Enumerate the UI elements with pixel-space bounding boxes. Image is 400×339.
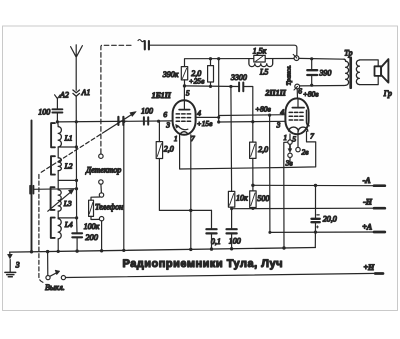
svg-text:Трансл.: Трансл.	[286, 65, 293, 86]
wire far-left chassis line	[31, 120, 33, 251]
coil L5	[249, 59, 273, 67]
svg-text:6: 6	[163, 110, 167, 119]
transformer secondary	[356, 60, 359, 84]
terminal -А	[374, 184, 385, 187]
wire L1 tap	[58, 146, 76, 148]
svg-text:+80в: +80в	[303, 89, 320, 98]
svg-text:390к: 390к	[162, 70, 179, 79]
rail ground common	[10, 248, 316, 253]
wire 10к branch vertical	[230, 87, 233, 192]
svg-text:-А: -А	[363, 176, 372, 185]
node dots antenna line	[75, 145, 78, 219]
wire HT dropper vertical	[218, 59, 220, 122]
svg-text:10к: 10к	[236, 194, 248, 203]
svg-text:3: 3	[276, 120, 281, 129]
capacitor 390 (tone)	[307, 59, 317, 85]
wire dashed mechanical link to band switch	[40, 131, 106, 173]
tube V2 anode	[292, 98, 304, 107]
svg-text:390: 390	[318, 69, 331, 78]
svg-text:+80в: +80в	[255, 105, 272, 114]
svg-text:1: 1	[174, 134, 178, 143]
svg-text:+А: +А	[362, 223, 373, 232]
tube V2 grids	[289, 112, 305, 120]
svg-text:3в: 3в	[285, 159, 294, 168]
coil L1	[58, 122, 62, 147]
resistor 100к (telephone shunt)	[89, 197, 100, 220]
capacitor 20,0 electrolytic	[312, 185, 320, 247]
svg-text:Телефон: Телефон	[95, 202, 123, 211]
wire grid line to V2 pin3	[219, 120, 286, 123]
wire speaker loop	[359, 60, 378, 85]
core L2	[51, 156, 55, 174]
wire top to transl terminal	[150, 45, 297, 55]
capacitor antenna series (top, with ~ mark)	[138, 40, 149, 50]
svg-text:Тр: Тр	[344, 48, 352, 57]
capacitor C variable (trimmer)	[106, 112, 136, 131]
wire top rail	[185, 59, 295, 67]
svg-text:3: 3	[165, 121, 170, 130]
svg-text:1,5к: 1,5к	[253, 47, 267, 56]
svg-text:100: 100	[229, 237, 241, 246]
svg-text:1Б1П: 1Б1П	[152, 91, 172, 100]
svg-text:2в: 2в	[302, 147, 310, 156]
terminal +Н	[375, 272, 383, 275]
arrow L3 variable	[48, 189, 74, 211]
wire L1-L2	[57, 147, 59, 158]
wire variable cap rotor to ground rail	[123, 122, 125, 251]
rail -Н	[232, 207, 375, 210]
resistor 390к	[181, 67, 187, 86]
terminal telephone jack lower	[99, 217, 103, 251]
svg-text:4: 4	[197, 108, 201, 117]
wire pin7 V2 loop	[284, 131, 316, 167]
terminal detector jack upper	[99, 154, 103, 158]
svg-text:0,1: 0,1	[211, 237, 221, 246]
svg-text:100: 100	[38, 107, 50, 116]
wire screen line to V2 pin4	[219, 114, 286, 117]
svg-text:L4: L4	[64, 220, 73, 229]
svg-text:1: 1	[283, 133, 287, 142]
svg-text:6: 6	[298, 87, 302, 96]
core L4	[51, 218, 55, 238]
wire +80в screen feed down	[269, 115, 271, 232]
capacitor 100 (antenna A2)	[52, 109, 62, 122]
svg-text:3300: 3300	[230, 73, 247, 82]
svg-text:100: 100	[141, 106, 153, 115]
coil L3	[58, 190, 61, 211]
wire pin1 V1 to filament line	[180, 134, 284, 169]
svg-text:20,0: 20,0	[323, 215, 337, 224]
resistor 2,0 (V2 grid leak)	[250, 122, 256, 186]
svg-text:500: 500	[257, 194, 269, 203]
capacitor 3300	[239, 83, 253, 122]
svg-text:Гр: Гр	[383, 89, 392, 98]
resistor 10к	[228, 191, 234, 229]
antenna	[71, 45, 83, 96]
terminal Трансл lower	[294, 84, 300, 90]
svg-text:7: 7	[191, 134, 195, 143]
core L1	[51, 123, 55, 147]
svg-text:-Н: -Н	[363, 198, 373, 207]
wire L4 to ground rail	[57, 239, 59, 252]
node junction dots left	[56, 120, 160, 124]
capacitor (far-left line tap)	[30, 186, 76, 194]
wire L2 tap	[58, 179, 76, 181]
earth symbol	[5, 252, 16, 277]
svg-text:L2: L2	[64, 161, 73, 170]
tube V1 anode	[179, 86, 189, 110]
capacitor 2,0 electrolytic	[208, 59, 214, 87]
svg-text:L3: L3	[63, 199, 72, 208]
wire dashed band switch vertical	[39, 175, 45, 283]
node dots right and rail	[30, 57, 317, 253]
svg-text:A1: A1	[81, 88, 91, 97]
filament link arrow	[288, 145, 292, 162]
svg-text:2,0: 2,0	[164, 145, 174, 154]
node dots mid	[183, 57, 271, 212]
resistor 2,0 (V1 grid leak)	[156, 121, 211, 210]
capacitor 0,1	[206, 210, 216, 249]
terminal telephone jack upper	[99, 193, 103, 197]
rail +А	[270, 231, 375, 233]
wire pin7 V1 down to ground	[190, 135, 192, 250]
wire grid line tube1	[57, 121, 172, 122]
coil L2	[58, 158, 61, 171]
svg-text:Детектор: Детектор	[85, 165, 121, 174]
svg-text:2,0: 2,0	[258, 145, 268, 154]
wire L3-L4 with tap	[58, 211, 76, 219]
terminal detector jack lower	[99, 180, 103, 193]
svg-text:З: З	[16, 261, 20, 270]
wire filament common down	[283, 168, 285, 249]
tube V2 beam plate	[306, 110, 309, 126]
loudspeaker Гр	[375, 59, 389, 83]
svg-text:+25в: +25в	[189, 77, 206, 86]
core L3	[51, 187, 55, 210]
svg-text:5: 5	[186, 89, 190, 98]
svg-text:7: 7	[310, 132, 314, 141]
svg-text:100к: 100к	[84, 222, 100, 231]
capacitor 100 (cathode)	[227, 229, 237, 249]
transformer Тр primary	[344, 59, 349, 85]
terminal A2 jack	[55, 95, 61, 109]
wire +Н line	[66, 273, 376, 277]
wire to output transformer top	[299, 57, 344, 60]
wire pin4 V1	[196, 116, 219, 118]
tube V1 cathode	[176, 124, 188, 134]
wire L2-L3	[57, 171, 59, 190]
wire pin6 V2	[296, 89, 298, 98]
switch Выкл	[46, 252, 66, 280]
resistor 500	[250, 185, 256, 208]
svg-text:Радиоприемники Тула, Луч: Радиоприемники Тула, Луч	[123, 258, 283, 270]
svg-text:200: 200	[85, 232, 99, 242]
svg-text:+Н: +Н	[364, 263, 376, 272]
svg-text:+15в: +15в	[197, 119, 214, 128]
capacitor 100 (grid coupling)	[144, 117, 148, 124]
resistor 1,5к	[254, 55, 265, 62]
svg-text:L1: L1	[64, 134, 73, 143]
coil L4	[58, 219, 61, 239]
rail -А	[253, 184, 375, 186]
transformer core	[349, 58, 352, 88]
wire dashed detector pickup line	[101, 45, 131, 153]
wire anode V2 line	[300, 85, 344, 87]
tube V2 2П1П envelope	[285, 98, 308, 134]
tube V1 1Б1П envelope	[173, 100, 196, 135]
wire anode V1 to 3300	[185, 85, 239, 88]
wire antenna line A1 down	[75, 96, 78, 232]
svg-text:2П1П: 2П1П	[264, 88, 286, 97]
svg-text:5: 5	[292, 134, 296, 143]
svg-text:L5: L5	[259, 68, 268, 77]
terminal Трансл upper	[293, 54, 299, 60]
tube V1 grids	[176, 114, 192, 121]
terminal -Н	[374, 207, 385, 210]
tube V2 filament arcs	[289, 127, 308, 131]
svg-text:4: 4	[280, 107, 284, 116]
terminal +А	[374, 231, 385, 234]
pin 1 wire and terminal	[288, 134, 292, 144]
capacitor 200	[72, 233, 82, 251]
svg-text:Выкл.: Выкл.	[45, 283, 65, 292]
pin 5 wire and terminal	[296, 131, 300, 151]
